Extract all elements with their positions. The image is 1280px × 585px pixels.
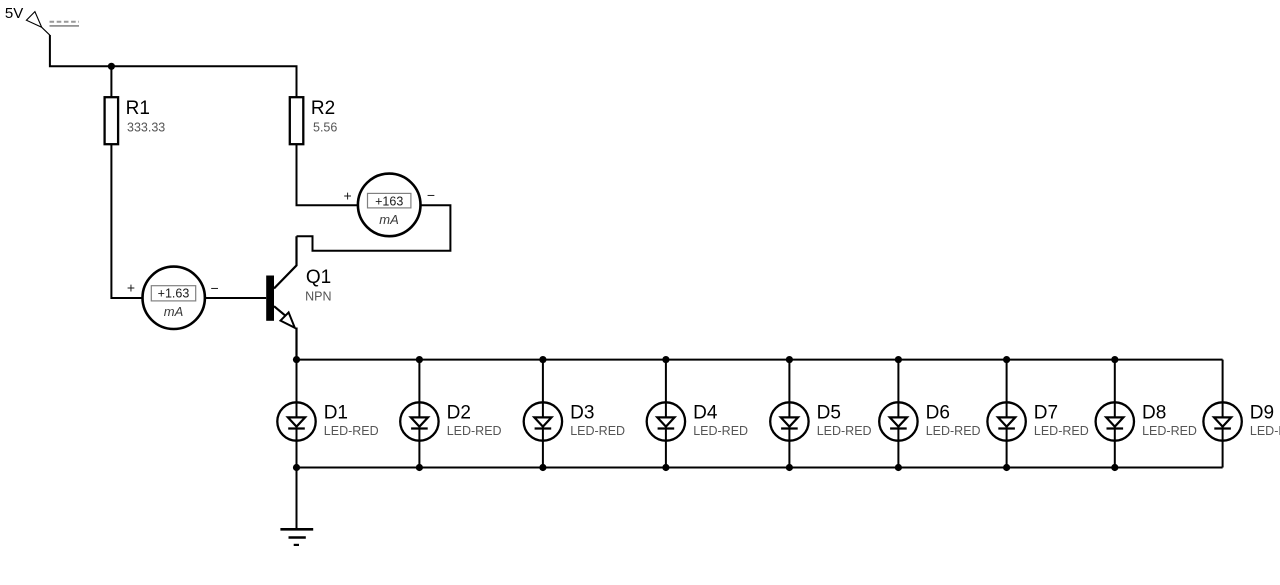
bottom bus wire (297, 467, 1223, 469)
LED D3 (524, 360, 625, 468)
junction dot bottom bus at D5 (786, 464, 793, 471)
svg-text:−: − (211, 280, 219, 296)
junction dot top bus at D6 (895, 356, 902, 363)
power terminal 5V (5, 5, 79, 35)
svg-text:LED-RED: LED-RED (1034, 424, 1089, 438)
wire: R2 bottom down and right to ammeter M1 (297, 144, 359, 205)
junction dot top bus at D7 (1003, 356, 1010, 363)
junction dot top bus at D3 (539, 356, 546, 363)
resistor R2 (290, 97, 338, 144)
svg-text:mA: mA (379, 212, 399, 227)
svg-text:LED-RED: LED-RED (1142, 424, 1197, 438)
svg-text:+163: +163 (375, 194, 403, 208)
wire: M2 right to Q1 base (205, 297, 266, 299)
junction dot top bus at D4 (662, 356, 669, 363)
svg-text:NPN: NPN (305, 289, 331, 303)
svg-text:LED-RED: LED-RED (817, 424, 872, 438)
junction dot top bus at D8 (1111, 356, 1118, 363)
svg-text:+1.63: +1.63 (158, 287, 190, 301)
svg-text:LED-RED: LED-RED (324, 424, 379, 438)
svg-text:5V: 5V (5, 5, 23, 22)
transistor Q1 (266, 236, 331, 359)
wire: bottom bus to ground (296, 468, 298, 530)
svg-text:5.56: 5.56 (313, 120, 337, 134)
LED D2 (400, 360, 501, 468)
top bus wire (297, 359, 1223, 361)
ground (280, 529, 313, 545)
LED D4 (647, 360, 748, 468)
junction dot bottom bus at D7 (1003, 464, 1010, 471)
svg-text:+: + (127, 280, 135, 296)
ammeter M2 (+1.63 mA) (127, 267, 219, 329)
svg-text:D6: D6 (926, 402, 950, 423)
svg-text:D7: D7 (1034, 402, 1058, 423)
LED D9 (1203, 360, 1280, 468)
svg-text:D4: D4 (693, 402, 718, 423)
svg-text:LED-RED: LED-RED (1250, 424, 1280, 438)
junction dot top bus at D5 (786, 356, 793, 363)
svg-text:+: + (344, 188, 352, 204)
svg-text:D2: D2 (447, 402, 471, 423)
svg-text:LED-RED: LED-RED (447, 424, 502, 438)
junction dot bottom bus at D3 (539, 464, 546, 471)
LED D1 (277, 360, 378, 468)
wire: rail to R1 top (110, 66, 112, 97)
ammeter M1 (+163 mA) (344, 174, 436, 237)
svg-text:LED-RED: LED-RED (693, 424, 748, 438)
LED D7 (987, 360, 1088, 468)
LED D5 (770, 360, 871, 468)
wire: R1 bottom down and right to ammeter M2 (111, 144, 142, 298)
svg-text:R1: R1 (126, 98, 150, 119)
svg-text:mA: mA (164, 304, 184, 319)
svg-text:D5: D5 (817, 402, 841, 423)
junction dot on top rail at R1 (108, 63, 115, 70)
svg-text:Q1: Q1 (306, 267, 331, 288)
junction dot bottom bus at D4 (662, 464, 669, 471)
junction dot top bus at D2 (416, 356, 423, 363)
svg-text:LED-RED: LED-RED (926, 424, 981, 438)
svg-text:D9: D9 (1250, 402, 1274, 423)
wire: 5V terminal down, top rail to R2 top (50, 35, 297, 97)
LED D6 (879, 360, 980, 468)
svg-text:D1: D1 (324, 402, 348, 423)
svg-text:D8: D8 (1142, 402, 1166, 423)
LED D8 (1096, 360, 1197, 468)
junction dot bottom bus at D1 (293, 464, 300, 471)
resistor R1 (105, 97, 166, 144)
svg-text:D3: D3 (570, 402, 594, 423)
svg-text:333.33: 333.33 (127, 120, 165, 134)
junction dot bottom bus at D6 (895, 464, 902, 471)
junction dot bottom bus at D8 (1111, 464, 1118, 471)
svg-text:R2: R2 (311, 98, 335, 119)
junction dot bottom bus at D2 (416, 464, 423, 471)
junction dot top bus at D1 (293, 356, 300, 363)
svg-text:−: − (427, 187, 435, 203)
svg-text:LED-RED: LED-RED (570, 424, 625, 438)
wire: collector loop Q1 to ammeter M1 (297, 205, 451, 251)
